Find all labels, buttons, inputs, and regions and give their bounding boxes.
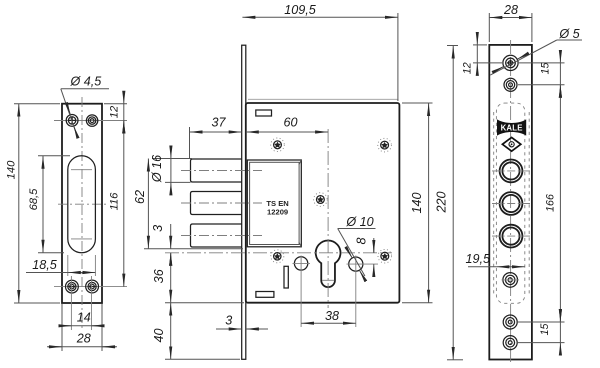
svg-text:60: 60 xyxy=(283,116,297,130)
dimension 40 xyxy=(165,302,244,304)
svg-text:18,5: 18,5 xyxy=(32,258,58,272)
svg-text:37: 37 xyxy=(211,116,226,130)
dimension 3 strip xyxy=(216,328,242,330)
dimension 15 bottom right xyxy=(518,321,565,323)
MIDDLE VIEW xyxy=(133,3,463,360)
vertical slot rect xyxy=(284,266,288,288)
svg-text:62: 62 xyxy=(133,190,147,204)
screw hole D xyxy=(503,315,517,329)
chamfer ticks xyxy=(299,160,301,164)
bolt housing square outer xyxy=(247,160,301,247)
plate horizontal centerline oval middle xyxy=(58,203,106,205)
horizontal centerline keyhole row xyxy=(165,252,392,254)
dimension 12 left view xyxy=(104,103,127,105)
dimension 12 right view xyxy=(473,44,487,46)
bolt circle 2 xyxy=(492,192,530,215)
plate horizontal centerline bottom holes xyxy=(54,286,127,288)
svg-text:109,5: 109,5 xyxy=(284,3,317,17)
screw bottom-right xyxy=(378,249,392,263)
svg-text:166: 166 xyxy=(545,194,557,212)
dimension 109,5 xyxy=(397,13,399,101)
screw hole bottom-right xyxy=(86,280,99,293)
svg-text:36: 36 xyxy=(152,269,166,283)
hidden edge line below case top xyxy=(248,98,399,100)
strike plate outline xyxy=(489,45,532,360)
horizontal slot rect xyxy=(256,292,274,298)
dimension 38 xyxy=(301,322,356,324)
plate vertical centerline xyxy=(510,40,512,362)
bolt pin 3 xyxy=(191,224,242,247)
svg-text:8: 8 xyxy=(355,237,369,244)
lock case outline xyxy=(246,103,400,303)
svg-text:3: 3 xyxy=(225,314,232,328)
leader line diameter 4,5 xyxy=(61,89,77,135)
oval slot xyxy=(68,156,96,253)
svg-text:38: 38 xyxy=(325,309,339,323)
pin centerlines xyxy=(181,170,262,172)
screw hole E xyxy=(503,336,517,350)
svg-text:40: 40 xyxy=(152,328,166,342)
svg-text:19,5: 19,5 xyxy=(466,252,492,266)
dimension 28 bottom xyxy=(47,346,117,348)
KALE logo banner xyxy=(497,119,526,135)
dimension 18,5 extension lines xyxy=(67,255,69,276)
svg-text:140: 140 xyxy=(410,192,424,213)
dimension 19,5 xyxy=(468,266,496,268)
dimension 60 xyxy=(246,131,328,133)
svg-text:28: 28 xyxy=(76,332,91,346)
screw hole bottom-left xyxy=(66,280,79,293)
dimension 220 right xyxy=(447,45,458,47)
screw top-left xyxy=(271,138,285,152)
svg-text:14: 14 xyxy=(77,311,91,325)
screw bottom-left xyxy=(271,250,284,263)
bolt pin 2 xyxy=(191,192,242,215)
svg-text:12: 12 xyxy=(462,62,474,74)
svg-text:28: 28 xyxy=(503,3,518,17)
oval arc-center ticks xyxy=(71,169,92,171)
screw hole A top xyxy=(503,55,518,70)
dimension 68,5 xyxy=(42,156,44,253)
svg-text:Ø 10: Ø 10 xyxy=(345,215,373,229)
screw hole top-left xyxy=(66,115,78,127)
svg-text:68,5: 68,5 xyxy=(28,188,40,211)
faceplate strip side view xyxy=(242,45,246,359)
bottom hole vertical centerlines xyxy=(70,276,72,330)
svg-text:3: 3 xyxy=(151,225,165,232)
circle left of keyhole xyxy=(294,257,307,270)
screw hole B xyxy=(504,78,517,91)
svg-text:12209: 12209 xyxy=(267,207,288,216)
svg-text:Ø 5: Ø 5 xyxy=(558,27,580,41)
svg-text:Ø 4,5: Ø 4,5 xyxy=(70,75,103,89)
faceplate outline xyxy=(62,104,102,303)
svg-text:12: 12 xyxy=(109,105,121,118)
dimension 140 xyxy=(18,104,20,303)
screw hole C xyxy=(502,273,520,288)
svg-text:15: 15 xyxy=(540,63,552,75)
dimension 28 top xyxy=(488,13,490,42)
keyhole stem arc tick xyxy=(322,279,334,281)
screw top-right xyxy=(378,138,392,152)
dimension 15 top right xyxy=(519,62,565,64)
plate horizontal centerline top holes xyxy=(54,120,127,122)
dimension diameter 16 xyxy=(152,158,192,160)
TSE diamond logo xyxy=(502,137,520,151)
outer dashed channel lines xyxy=(493,112,495,296)
dimension 140 extension lines xyxy=(14,103,60,105)
circle diameter 10 xyxy=(349,257,363,271)
dimension 36 xyxy=(170,253,172,303)
plate vertical centerline xyxy=(81,97,83,331)
bolt pin 1 xyxy=(191,159,242,182)
keyhole vertical centerline xyxy=(327,129,329,308)
dimension 62 xyxy=(144,248,243,250)
dimension 14 xyxy=(61,304,63,351)
svg-text:116: 116 xyxy=(109,192,121,211)
LEFT VIEW xyxy=(6,75,128,352)
RIGHT VIEW xyxy=(462,3,583,362)
dimension 37 xyxy=(189,127,191,158)
screw middle xyxy=(314,193,328,207)
bolt circle 3 xyxy=(492,225,530,248)
svg-text:KALE: KALE xyxy=(501,123,523,132)
svg-text:140: 140 xyxy=(6,160,18,179)
top slot xyxy=(256,110,272,116)
svg-text:15: 15 xyxy=(539,324,551,336)
svg-text:Ø 16: Ø 16 xyxy=(150,155,164,183)
leader line diameter 5 xyxy=(490,40,557,75)
dimension 140 right xyxy=(402,102,433,104)
bolt housing square inner xyxy=(250,162,300,244)
dimension 3 left chain xyxy=(170,224,172,249)
bolt circle 1 xyxy=(492,160,530,183)
dimension 166 xyxy=(559,85,561,322)
keyhole euro profile xyxy=(316,240,341,287)
dimension 116 xyxy=(123,121,125,287)
dimension 68,5 extension lines xyxy=(38,155,70,157)
svg-text:220: 220 xyxy=(434,191,448,213)
leader line diameter 10 xyxy=(338,229,365,277)
dimension 8 xyxy=(373,238,375,253)
dimension 18,5 xyxy=(26,272,95,274)
screw hole top-right xyxy=(86,115,97,126)
dashed channel rounded rect xyxy=(496,103,524,303)
